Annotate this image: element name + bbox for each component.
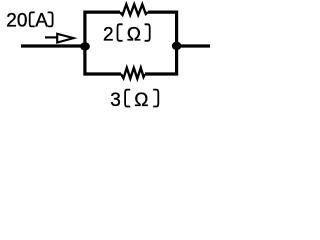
wire: output lead xyxy=(177,44,210,47)
svg-text:20: 20 xyxy=(6,11,27,32)
node: right junction dot xyxy=(172,42,182,50)
svg-text:Ω: Ω xyxy=(127,24,141,45)
resistor R2: 3 ohm zigzag xyxy=(121,68,145,79)
svg-text:3: 3 xyxy=(110,90,121,111)
resistor R1: 2 ohm zigzag xyxy=(120,4,148,15)
current direction arrow xyxy=(45,34,74,43)
node: left junction dot xyxy=(80,42,90,50)
wire: input lead xyxy=(21,44,85,47)
label: 3[ohm] xyxy=(110,90,158,111)
svg-text:A: A xyxy=(35,11,48,32)
wire: top-left segment + left vertical + bottom-left segment xyxy=(85,12,121,74)
label: source current 20[A] xyxy=(6,11,52,32)
svg-text:Ω: Ω xyxy=(134,90,148,111)
label: 2[ohm] xyxy=(103,24,150,45)
svg-text:2: 2 xyxy=(103,24,114,45)
wire: top-right segment + right vertical + bottom-right segment xyxy=(145,12,177,74)
